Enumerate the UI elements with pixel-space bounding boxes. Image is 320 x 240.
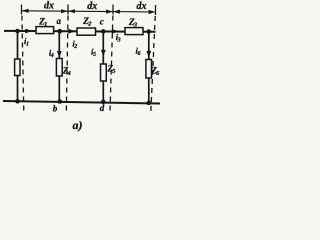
current arrow i6 (down): [146, 51, 151, 58]
junction dot bottom-right: [147, 101, 152, 106]
svg-text:dx: dx: [87, 1, 97, 12]
dimension shaft span 1: [22, 10, 68, 12]
dimension arrowhead span1 left: [22, 9, 29, 13]
current arrow i2: [68, 29, 75, 34]
node a dot: [58, 29, 63, 34]
current arrow i4 (down): [57, 51, 62, 58]
node b dot: [58, 99, 63, 104]
svg-text:a): a): [73, 118, 83, 132]
shunt branch wire under node a: [58, 31, 60, 101]
svg-text:b: b: [53, 104, 58, 114]
shunt branch wire (rightmost): [148, 32, 150, 103]
dashed construction line 4: [151, 16, 155, 113]
dashed construction line 1: [22, 16, 24, 113]
bottom wire: [3, 101, 160, 104]
dimension arrowhead span2 right: [106, 10, 113, 14]
node c dot: [101, 29, 106, 34]
resistor Z1 (series): [36, 27, 54, 34]
dashed construction line 2: [66, 16, 68, 113]
dimension arrowhead span1 right: [61, 9, 68, 13]
dimension shaft span 2: [68, 10, 113, 12]
node d dot: [101, 100, 106, 105]
shunt branch wire under node c: [102, 31, 104, 102]
current arrow i5 (down): [101, 50, 106, 57]
shunt branch wire (leftmost): [17, 31, 19, 101]
svg-text:a: a: [57, 16, 62, 26]
dimension arrowhead span3 right: [149, 10, 156, 14]
svg-text:c: c: [100, 17, 104, 27]
dimension arrowhead span2 left: [68, 9, 75, 13]
svg-text:dx: dx: [44, 0, 54, 11]
resistor Z4 (shunt): [56, 59, 62, 77]
top wire: [4, 30, 156, 33]
paper background: [0, 0, 163, 135]
dimension tick 4: [155, 5, 157, 15]
dimension tick 1: [21, 5, 23, 15]
dimension arrowhead span3 left: [113, 10, 120, 14]
svg-text:dx: dx: [137, 1, 147, 12]
resistor Z5 (shunt): [101, 64, 107, 81]
dimension shaft span 3: [113, 11, 156, 13]
junction dot bottom-left: [15, 99, 20, 104]
dashed construction line 3: [110, 16, 113, 113]
dimension tick 2: [67, 5, 69, 15]
resistor Z3 (series): [125, 28, 143, 35]
current arrow i3: [112, 29, 119, 34]
current arrow i1: [25, 29, 32, 34]
resistor Z6 (shunt): [146, 60, 152, 79]
resistor (leftmost shunt, unlabeled): [15, 59, 20, 76]
junction dot top-left: [15, 29, 20, 34]
resistor Z2 (series): [77, 28, 96, 35]
junction dot top-right: [147, 29, 152, 34]
svg-text:d: d: [100, 103, 105, 113]
dimension tick 3: [112, 5, 114, 15]
